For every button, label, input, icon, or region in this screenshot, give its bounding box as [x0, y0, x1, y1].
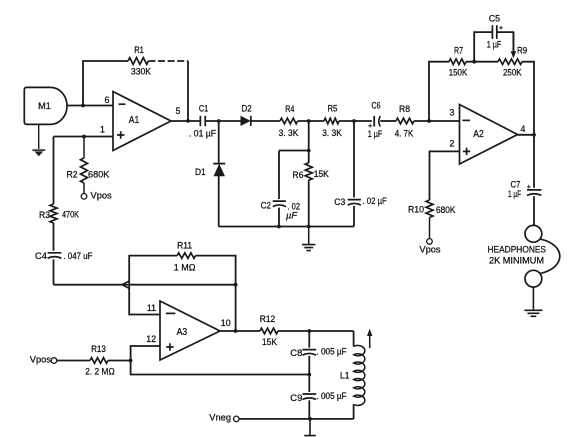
- svg-text:12: 12: [146, 334, 156, 344]
- R9 wiper arrow: [512, 32, 514, 51]
- svg-text:µF: µF: [286, 210, 298, 220]
- wire A1 output to C1: [171, 120, 200, 122]
- svg-text:3. 3K: 3. 3K: [322, 128, 343, 138]
- svg-text:Vpos: Vpos: [91, 190, 113, 200]
- svg-text:15K: 15K: [314, 169, 330, 179]
- svg-text:R4: R4: [285, 104, 294, 114]
- wire R13 to junction: [108, 360, 131, 362]
- potentiometer R9: [498, 59, 522, 65]
- svg-text:C8: C8: [290, 348, 302, 358]
- headphone top earpiece: [525, 225, 542, 242]
- wire R10 to Vpos: [429, 218, 431, 239]
- svg-text:1: 1: [100, 125, 105, 135]
- svg-text:R10: R10: [408, 205, 424, 215]
- diode D2: [241, 117, 250, 126]
- svg-text:A3: A3: [177, 327, 188, 338]
- svg-text:11: 11: [147, 303, 156, 313]
- wire D2 to R4: [251, 120, 280, 122]
- wire A2 pin2: [430, 151, 460, 200]
- node junction R11/output: [234, 329, 238, 333]
- L1 tuning arrow: [369, 334, 371, 348]
- arrowhead at R11 junction: [122, 281, 129, 288]
- svg-text:HEADPHONES: HEADPHONES: [488, 245, 547, 256]
- svg-text:3. 3K: 3. 3K: [279, 128, 300, 138]
- svg-text:2K MINIMUM: 2K MINIMUM: [489, 256, 544, 267]
- wire M1 ground stem: [38, 124, 40, 149]
- wire bottom ground stem: [309, 419, 311, 435]
- resistor R6 wires: [308, 121, 310, 163]
- diode D1: [213, 163, 225, 165]
- ground (mid): [302, 245, 316, 251]
- wire C7 to headphones: [533, 196, 535, 225]
- svg-text:250K: 250K: [503, 68, 522, 78]
- wire R1 feedback right: [148, 60, 188, 62]
- wire L1 leads: [353, 331, 355, 347]
- svg-text:L1: L1: [340, 370, 350, 380]
- wire top loop: [429, 62, 449, 121]
- wire R4 to R5: [298, 120, 324, 122]
- resistor R12: [260, 328, 278, 334]
- resistor R8: [396, 118, 414, 124]
- wire M1 output to A1 pin 6: [67, 105, 113, 107]
- terminal Vpos (R13): [51, 358, 57, 364]
- resistor R2: [81, 158, 88, 183]
- wire Vpos to R13: [57, 360, 90, 362]
- wire A1 pin1 input: [54, 136, 114, 138]
- capacitor C8: [302, 350, 316, 356]
- wire to C7: [533, 135, 535, 188]
- svg-text:330K: 330K: [131, 67, 152, 77]
- resistor R10: [426, 200, 433, 218]
- svg-text:R12: R12: [260, 314, 276, 324]
- wire Vneg rail: [239, 418, 354, 420]
- node junction bottom: [308, 417, 312, 421]
- capacitor C1: [200, 116, 205, 126]
- svg-text:M1: M1: [38, 101, 51, 111]
- ground (headphones): [524, 310, 542, 316]
- svg-text:C4: C4: [35, 251, 47, 261]
- wire C5 loop: [474, 32, 492, 62]
- wire R1 feedback left: [83, 61, 128, 106]
- wire R8 to A2 pin3: [414, 120, 460, 122]
- svg-text:2. 2 MΩ: 2. 2 MΩ: [85, 366, 115, 376]
- svg-text:680K: 680K: [436, 205, 456, 215]
- wire R11 loop: [129, 256, 177, 285]
- capacitor C7: [527, 190, 541, 196]
- resistor R1: [128, 58, 148, 65]
- svg-text:1 µF: 1 µF: [508, 189, 521, 199]
- svg-text:R1: R1: [134, 45, 144, 55]
- node junction R4/R6: [307, 119, 311, 123]
- terminal Vpos (R2): [81, 194, 87, 200]
- svg-text:Vpos: Vpos: [30, 354, 52, 364]
- wire R5 to C6: [339, 120, 372, 122]
- wire A3 pin12: [131, 346, 160, 361]
- svg-text:R5: R5: [327, 104, 337, 114]
- inductor L1: [354, 345, 365, 405]
- svg-text:150K: 150K: [449, 67, 468, 77]
- node junction feedback/output: [186, 119, 190, 123]
- node junction M1/R1 feedback: [81, 104, 85, 108]
- svg-text:R9: R9: [517, 45, 527, 55]
- resistor R3: [50, 204, 57, 223]
- svg-text:4. 7K: 4. 7K: [395, 128, 414, 138]
- wire lower horizontal to C8/C9 mid: [131, 361, 309, 375]
- wire A3 output: [220, 330, 260, 332]
- wire C1 to D2: [206, 120, 242, 122]
- svg-text:R7: R7: [454, 45, 463, 55]
- wire R2 branch: [83, 137, 85, 159]
- svg-text:. 047 uF: . 047 uF: [64, 251, 93, 261]
- svg-text:2: 2: [450, 139, 455, 149]
- node junction D1 branch: [217, 119, 221, 123]
- wire R12 to L1 top: [278, 330, 354, 332]
- svg-text:1 MΩ: 1 MΩ: [174, 263, 196, 273]
- svg-text:R11: R11: [177, 240, 192, 250]
- wire A3 pin11: [129, 285, 160, 315]
- svg-text:680K: 680K: [88, 169, 110, 179]
- node junction C3 branch: [352, 119, 356, 123]
- svg-text:C1: C1: [199, 103, 208, 113]
- headphone cord arc: [540, 239, 560, 274]
- node junction R7/R9/C5: [472, 60, 476, 64]
- resistor R11: [177, 253, 195, 259]
- svg-text:. 005 µF: . 005 µF: [317, 391, 347, 401]
- svg-text:R8: R8: [399, 104, 410, 114]
- svg-text:A2: A2: [473, 129, 484, 140]
- svg-text:5: 5: [176, 106, 181, 116]
- svg-text:4: 4: [521, 124, 526, 134]
- svg-text:R3: R3: [39, 210, 50, 220]
- svg-text:R13: R13: [91, 344, 106, 354]
- svg-text:D2: D2: [242, 104, 252, 114]
- svg-text:+: +: [527, 184, 531, 191]
- wire C6 to R8: [380, 120, 396, 122]
- svg-text:15K: 15K: [262, 337, 278, 347]
- svg-text:. 01 µF: . 01 µF: [189, 129, 216, 139]
- wire C3 branch: [353, 121, 355, 197]
- op-amp A3: [160, 301, 220, 360]
- op-amp A2: [460, 105, 518, 165]
- node junction R6 top: [307, 149, 311, 153]
- terminal Vpos (R10): [427, 239, 433, 245]
- svg-text:10: 10: [221, 318, 231, 328]
- wire C2 branch: [278, 151, 280, 200]
- node junction R11 right: [234, 283, 238, 287]
- wire C2 top connector: [279, 150, 309, 152]
- wire C8/C9 branch: [308, 331, 310, 348]
- resistor R6: [305, 163, 312, 180]
- svg-text:A1: A1: [129, 115, 140, 126]
- microphone M1: [24, 87, 67, 124]
- svg-text:6: 6: [105, 95, 110, 105]
- svg-text:C9: C9: [290, 393, 302, 403]
- capacitor C9: [302, 394, 316, 400]
- svg-text:C5: C5: [489, 13, 500, 23]
- resistor R13: [90, 358, 108, 364]
- svg-text:. 005 µF: . 005 µF: [317, 346, 347, 356]
- svg-text:+: +: [499, 23, 504, 32]
- svg-text:1 µF: 1 µF: [368, 129, 383, 139]
- capacitor C4: [48, 253, 62, 258]
- wire D1 branch: [218, 121, 220, 163]
- svg-text:C2: C2: [261, 201, 271, 211]
- capacitor C3: [348, 200, 361, 206]
- svg-text:470K: 470K: [62, 209, 80, 219]
- wire mid ground stem: [308, 227, 310, 245]
- svg-text:3: 3: [450, 108, 455, 118]
- ground (below M1): [32, 149, 45, 151]
- svg-text:R2: R2: [67, 170, 78, 180]
- op-amp A1: [113, 92, 171, 151]
- capacitor C6: [373, 116, 375, 127]
- svg-text:. 02 µF: . 02 µF: [363, 196, 388, 206]
- ground (bottom): [304, 436, 316, 437]
- svg-text:1 µF: 1 µF: [487, 40, 502, 50]
- svg-text:R6: R6: [293, 170, 304, 180]
- svg-text:D1: D1: [195, 167, 206, 177]
- node junction C2 bottom: [277, 225, 281, 229]
- node junction C8/C9 mid: [307, 373, 311, 377]
- node junction C8 top: [307, 329, 311, 333]
- svg-text:C3: C3: [334, 197, 345, 207]
- wire bottom rail: [219, 226, 354, 228]
- wire A2 output: [518, 134, 534, 136]
- wire headphones ground stem: [532, 287, 534, 310]
- node junction R13/pin12: [129, 359, 133, 363]
- terminal Vneg: [234, 416, 240, 422]
- svg-text:C6: C6: [372, 100, 381, 110]
- headphone bottom earpiece: [525, 270, 542, 287]
- node junction R6 bottom: [307, 225, 311, 229]
- node junction A2 output: [532, 133, 536, 137]
- svg-text:Vneg: Vneg: [209, 412, 231, 422]
- node junction R7 branch: [427, 119, 431, 123]
- svg-text:Vpos: Vpos: [419, 244, 441, 254]
- wire left column R3/C4: [53, 137, 55, 205]
- resistor R7: [449, 59, 466, 65]
- capacitor C5: [492, 25, 496, 39]
- resistor R4: [280, 118, 298, 124]
- node junction R2/pin1: [82, 135, 86, 139]
- wire mid horizontal (C4 to R11 net): [54, 284, 236, 286]
- capacitor C2: [273, 201, 286, 207]
- resistor R5: [324, 118, 339, 124]
